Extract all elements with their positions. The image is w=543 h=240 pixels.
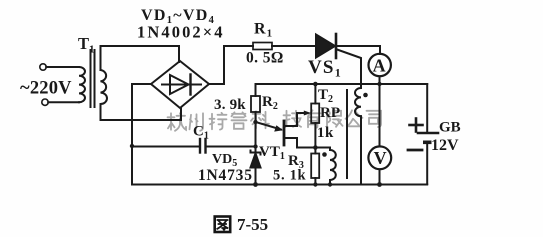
- svg-text:~220V: ~220V: [20, 79, 72, 99]
- transistor VT1 unijunction: [256, 113, 316, 148]
- svg-text:GB: GB: [439, 120, 461, 136]
- wire ac bottom: [101, 119, 182, 121]
- resistor R2: [251, 96, 260, 112]
- thyristor VS1 gate wire: [337, 50, 361, 89]
- transformer T2 core: [346, 90, 348, 178]
- svg-text:5. 1k: 5. 1k: [273, 168, 307, 184]
- junction dot C1 left: [130, 144, 134, 148]
- transformer T1 primary winding: [79, 67, 85, 102]
- svg-text:VT1: VT1: [259, 144, 285, 162]
- caption figure 7-55: [215, 215, 268, 234]
- wire secondary top to rail: [100, 46, 102, 70]
- svg-text:0. 5Ω: 0. 5Ω: [246, 50, 284, 67]
- resistor R1: [253, 43, 272, 50]
- wire: [48, 101, 79, 103]
- wire R1 to VS1: [272, 45, 316, 47]
- watermark: [168, 110, 382, 131]
- wire R3 bottom: [314, 178, 316, 185]
- bridge rectifier VD1-VD4 diamond: [151, 61, 209, 108]
- wire voltmeter bottom: [379, 170, 381, 185]
- transformer T2 winding primary: [315, 148, 335, 185]
- transformer T1 secondary winding: [101, 70, 108, 104]
- wire RP top: [314, 84, 316, 104]
- junction dot zener bottom: [253, 182, 258, 187]
- wire top rail left: [101, 45, 180, 47]
- bridge inner diode: [162, 75, 201, 95]
- svg-text:3. 9k: 3. 9k: [214, 97, 246, 113]
- wire drop to bridge ac1: [178, 46, 180, 62]
- transformer T1 core: [90, 50, 92, 107]
- emitter wire: [256, 122, 282, 130]
- junction dot RP top: [313, 82, 318, 87]
- svg-text:T2: T2: [318, 87, 333, 105]
- voltmeter V: [379, 84, 381, 147]
- svg-text:RP: RP: [320, 105, 340, 121]
- wire R2 top: [255, 84, 257, 96]
- wire VS1 cathode to ammeter: [337, 46, 380, 54]
- label battery minus: [408, 149, 422, 152]
- wire ammeter to mid rail: [379, 77, 381, 85]
- ammeter A: [369, 54, 391, 76]
- wire R2 bottom: [255, 112, 257, 147]
- junction dot emitter: [253, 120, 257, 124]
- junction dot voltmeter bottom: [377, 182, 382, 187]
- transformer T1 primary terminal top: [40, 64, 46, 70]
- battery GB: [418, 133, 438, 184]
- wire bridge negative to left column: [132, 83, 151, 85]
- wire bridge positive: [209, 46, 253, 84]
- transformer T2 winding secondary: [355, 88, 361, 185]
- wire right column top: [426, 84, 428, 132]
- junction dot C1 right: [253, 144, 257, 148]
- wire: [46, 66, 79, 68]
- transformer T1 primary terminal bottom: [42, 99, 48, 105]
- base bar: [283, 121, 286, 145]
- base2 lead: [284, 113, 303, 126]
- svg-text:1k: 1k: [317, 125, 334, 141]
- svg-text:R1: R1: [254, 21, 273, 40]
- wire left column down: [131, 84, 133, 185]
- potentiometer RP wiper arrow: [303, 111, 311, 116]
- svg-text:1N4735: 1N4735: [198, 167, 253, 184]
- thyristor VS1: [316, 34, 336, 58]
- resistor R3: [311, 154, 319, 179]
- svg-text:7-55: 7-55: [237, 215, 268, 234]
- svg-text:T1: T1: [78, 34, 95, 56]
- wire up to bridge ac2: [180, 108, 182, 120]
- junction dot B1 node: [313, 145, 318, 150]
- wire secondary bottom: [100, 104, 102, 120]
- junction dot meters: [377, 82, 381, 86]
- polarity dot T2 primary: [322, 152, 327, 157]
- wire mid rail: [256, 83, 428, 85]
- svg-text:R2: R2: [262, 94, 278, 112]
- label battery plus: [410, 119, 423, 132]
- zener diode VD5: [251, 146, 261, 185]
- svg-text:A: A: [373, 56, 386, 76]
- wire bottom rail: [132, 184, 427, 186]
- junction dot R3 bottom: [313, 182, 317, 186]
- junction dot T2 primary bottom: [328, 182, 332, 186]
- svg-text:VS1: VS1: [308, 57, 342, 80]
- svg-text:1N4002×4: 1N4002×4: [137, 23, 225, 42]
- capacitor C1: [132, 139, 256, 153]
- polarity dot T2 secondary: [363, 93, 368, 98]
- svg-text:12V: 12V: [431, 137, 459, 154]
- wire RP bottom: [314, 123, 316, 154]
- svg-text:V: V: [374, 148, 387, 168]
- svg-text:C1: C1: [193, 124, 209, 142]
- base1 lead: [284, 138, 315, 148]
- potentiometer RP: [311, 104, 319, 124]
